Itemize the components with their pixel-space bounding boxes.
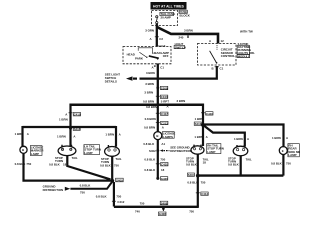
- pin A13 top of light switch: [156, 44, 166, 48]
- svg-text:A13: A13: [160, 44, 166, 48]
- label 740 / 750 below bus: [135, 209, 194, 213]
- svg-text:DISTRIBUTION: DISTRIBUTION: [170, 149, 191, 153]
- wire branch to RH marker lamp y124.5: [203, 125, 284, 147]
- svg-text:B: B: [22, 148, 24, 152]
- svg-text:HEAD: HEAD: [127, 53, 135, 57]
- connector C417: [156, 112, 169, 116]
- labels under lamp E5: [186, 157, 209, 167]
- wire right ground bus y175.6: [198, 174, 284, 176]
- label 1 BRN / A: [15, 132, 30, 136]
- svg-text:TAIL: TAIL: [115, 157, 121, 161]
- wire branch to RH inner lamp y132.5: [204, 125, 245, 146]
- label SEE LIGHT SWITCH DETAILS: [105, 72, 120, 83]
- label 0.8 BRN / 5 RPT: [143, 99, 169, 103]
- wire drop to lamp3 x116: [115, 126, 117, 147]
- splice S408 on bus: [160, 201, 168, 205]
- labels under lamp E3: [100, 157, 122, 167]
- switch S2 inside DRL box: [210, 45, 236, 64]
- svg-text:B: B: [156, 134, 158, 138]
- svg-text:3 BRN: 3 BRN: [146, 71, 155, 75]
- label LH TAIL STOP TURN LAMP boxed: [84, 144, 101, 154]
- connector C412 left: [112, 200, 125, 204]
- DRL module dashed box: [198, 44, 237, 66]
- power label HOT AT ALL TIMES: [151, 2, 187, 10]
- left bus drop x70.5: [69, 104, 71, 147]
- svg-text:750: 750: [26, 162, 31, 166]
- label 0.8 BLK under lamp E7: [271, 161, 291, 165]
- svg-text:S402: S402: [149, 149, 156, 153]
- splice S402 with see ground distribution arrow: [149, 146, 191, 154]
- label 0.8 BLK / 750: [15, 162, 32, 166]
- ground G420: [156, 177, 168, 181]
- label 1 BRN / A: [57, 134, 76, 138]
- svg-text:0.8 BLK: 0.8 BLK: [187, 181, 199, 185]
- svg-text:740: 740: [135, 209, 140, 213]
- svg-text:DISTRIBUTION: DISTRIBUTION: [43, 188, 64, 192]
- svg-text:0.8 BLK: 0.8 BLK: [80, 183, 92, 187]
- wire lamp E5 ground down: [197, 154, 199, 207]
- svg-text:DETAILS: DETAILS: [105, 80, 117, 84]
- svg-text:C412: C412: [117, 200, 124, 204]
- wire junction down x114: [113, 182, 115, 207]
- svg-text:OFF: OFF: [163, 54, 169, 58]
- wire light switch down (x158): [157, 64, 159, 105]
- svg-text:1 BRN: 1 BRN: [272, 136, 281, 140]
- svg-text:1 BRN: 1 BRN: [57, 134, 66, 138]
- svg-text:TAIL: TAIL: [246, 157, 252, 161]
- svg-text:0.8 BRN: 0.8 BRN: [146, 105, 157, 109]
- svg-text:C1: C1: [160, 65, 164, 69]
- svg-text:1 BRN: 1 BRN: [234, 137, 243, 141]
- svg-text:750: 750: [201, 181, 206, 185]
- svg-text:0.8 BLK: 0.8 BLK: [96, 195, 108, 199]
- splice S410: [194, 122, 205, 127]
- label 0.8 BLK / 750: [96, 195, 122, 199]
- svg-text:1 BRN: 1 BRN: [59, 118, 68, 122]
- wire below center lamp: [157, 140, 159, 179]
- lamp E1 (LH license lamp): [20, 146, 27, 153]
- lamp E5 (RH tail stop turn lamp): [191, 145, 204, 155]
- ground bus bottom y206.8: [114, 206, 199, 208]
- wire lamp E7 ground: [282, 154, 284, 175]
- svg-text:B: B: [212, 67, 214, 71]
- label 1 BRN: [105, 133, 121, 137]
- svg-text:0.8 BLK: 0.8 BLK: [271, 161, 283, 165]
- svg-text:18: 18: [203, 160, 207, 164]
- label LICENSE LAMP (boxed): [30, 145, 44, 155]
- splice tick on trunk: [187, 35, 189, 38]
- svg-text:750: 750: [189, 210, 194, 214]
- svg-text:A1: A1: [161, 142, 165, 146]
- svg-text:0.8 BLK: 0.8 BLK: [228, 163, 240, 167]
- fuse block dashed box: [152, 11, 178, 26]
- svg-text:0.8 BLK: 0.8 BLK: [186, 163, 198, 167]
- svg-text:750: 750: [116, 195, 121, 199]
- svg-text:750: 750: [114, 163, 119, 167]
- svg-text:PARK: PARK: [135, 56, 144, 60]
- svg-text:0.8 BLK: 0.8 BLK: [15, 162, 27, 166]
- svg-text:0.8 BLK: 0.8 BLK: [49, 162, 61, 166]
- label 0.8 BLK / A1: [143, 142, 165, 146]
- svg-text:0.8 BRN: 0.8 BRN: [143, 99, 154, 103]
- svg-text:3 BRN: 3 BRN: [145, 82, 154, 86]
- svg-text:LAMP: LAMP: [207, 150, 215, 154]
- label DAYTIME RUNNING LIGHTS DRL MODULE: [237, 42, 255, 58]
- splice S on left drop: [69, 127, 81, 132]
- svg-text:3 BRN: 3 BRN: [144, 91, 153, 95]
- labels under lamp E2: [49, 156, 78, 167]
- wire lamp E1 ground: [24, 153, 112, 180]
- label 0.8 BLK / 18: [144, 168, 164, 172]
- splice S208: [156, 86, 168, 90]
- lamp E6 (RH inner tail lamp): [233, 145, 248, 156]
- ground distribution arrow left: [43, 181, 113, 194]
- connector A C1: [152, 65, 165, 69]
- svg-text:18: 18: [63, 162, 67, 166]
- svg-text:WITH TW: WITH TW: [240, 29, 253, 33]
- label 1 BRN lamp4: [194, 135, 208, 139]
- svg-text:750: 750: [140, 202, 145, 206]
- pin B bottom of light switch: [154, 64, 160, 68]
- svg-text:5 RPT: 5 RPT: [161, 99, 169, 103]
- label 0.8 BLK / 750 right: [187, 181, 205, 185]
- svg-text:HOT AT ALL TIMES: HOT AT ALL TIMES: [153, 5, 185, 9]
- svg-text:TAIL: TAIL: [72, 156, 78, 160]
- svg-text:750: 750: [160, 158, 165, 162]
- label 1 BRN lamp6: [272, 136, 289, 140]
- switch S1 (headlight switch contacts): [127, 48, 169, 61]
- wire fuse to light switch (vertical x157): [156, 24, 158, 47]
- connector C212: [156, 163, 169, 167]
- connector A C2 right box: [209, 39, 224, 43]
- svg-text:B: B: [154, 64, 156, 68]
- svg-text:3 BRN: 3 BRN: [177, 99, 186, 103]
- wire lamp E3 ground: [111, 156, 113, 181]
- svg-text:LAMP: LAMP: [288, 153, 296, 157]
- svg-text:1 BRN: 1 BRN: [194, 135, 203, 139]
- svg-text:0.8 BLK: 0.8 BLK: [144, 168, 156, 172]
- label 3 BRN / A: [146, 104, 170, 108]
- lamp E2 (LH tail stop turn lamp): [58, 145, 76, 156]
- right bus drop x203: [202, 104, 204, 147]
- label FUSE BLOCK: [179, 10, 191, 17]
- connector A C410 left: [65, 113, 81, 117]
- splice junction right: [187, 173, 199, 178]
- label 1 BRN lamp5: [234, 137, 250, 141]
- svg-text:CONTROL: CONTROL: [221, 54, 236, 58]
- wire branch to DRL module (trunk right): [157, 27, 218, 44]
- svg-text:1 BRN: 1 BRN: [195, 117, 204, 121]
- light switch label: [174, 42, 186, 49]
- connector C412 right: [196, 192, 209, 196]
- svg-text:1 BRN: 1 BRN: [15, 132, 24, 136]
- labels under lamp E6: [228, 157, 252, 167]
- svg-text:20 AMP: 20 AMP: [161, 16, 171, 20]
- label RH REAR SIDE MARKER LAMP boxed: [288, 143, 304, 157]
- svg-text:BLOCK: BLOCK: [180, 13, 191, 17]
- label LICENSE LAMPS boxed: [162, 131, 175, 138]
- ground G408: [158, 207, 166, 216]
- splice S409 junction: [111, 178, 124, 182]
- svg-text:0.8 BLK: 0.8 BLK: [100, 163, 112, 167]
- main bus wire y104.7: [71, 103, 204, 106]
- svg-text:750: 750: [286, 161, 291, 165]
- svg-text:0.8 BLK: 0.8 BLK: [143, 142, 155, 146]
- fuse F TAIL 20 AMP: [156, 12, 176, 24]
- svg-text:0.8 BRN: 0.8 BRN: [144, 126, 155, 130]
- svg-text:0.8 BLK: 0.8 BLK: [144, 158, 156, 162]
- svg-text:240: 240: [179, 36, 184, 40]
- svg-text:750: 750: [80, 190, 85, 194]
- label 0.8 BLK / 750: [144, 158, 165, 162]
- left lamps feed wire y127: [23, 126, 117, 128]
- svg-text:3 BRN: 3 BRN: [184, 28, 193, 32]
- svg-text:C2: C2: [159, 37, 163, 41]
- svg-text:C1: C1: [220, 67, 224, 71]
- svg-text:B: B: [62, 147, 64, 151]
- svg-text:LAMP: LAMP: [84, 151, 92, 155]
- svg-text:3 ORN: 3 ORN: [145, 29, 154, 33]
- svg-text:E: E: [282, 149, 284, 153]
- svg-text:0.8 BRN: 0.8 BRN: [145, 117, 156, 121]
- wire DRL module to main feed (arrow line y78.6): [140, 66, 217, 79]
- wire drop to license lamp LH x22.5: [21, 126, 23, 146]
- headlight switch dashed box: [123, 47, 171, 64]
- svg-text:12: 12: [221, 39, 225, 43]
- connector C100: [156, 95, 168, 99]
- lamp E3 (LH inner tail lamp): [105, 145, 120, 156]
- wire lamp E2 ground diagonal: [67, 155, 110, 179]
- center column below bus x157.8: [157, 104, 159, 132]
- label RH TAIL STOP TURN LAMP boxed: [207, 143, 224, 153]
- connector C213: [156, 121, 169, 125]
- lamp E7 (RH rear side marker lamp): [279, 147, 287, 155]
- connector A C2: [150, 37, 164, 41]
- svg-text:1 BRN: 1 BRN: [105, 133, 114, 137]
- wire lamp E6 ground: [240, 156, 242, 176]
- label 0.8 BRN / A: [144, 126, 165, 130]
- pin B bottom of DRL box: [212, 67, 224, 71]
- svg-text:18: 18: [161, 168, 165, 172]
- connector C410 right: [201, 112, 213, 116]
- arrow to light switch details: [126, 76, 137, 80]
- lamp E4 (license lamps center): [154, 132, 162, 140]
